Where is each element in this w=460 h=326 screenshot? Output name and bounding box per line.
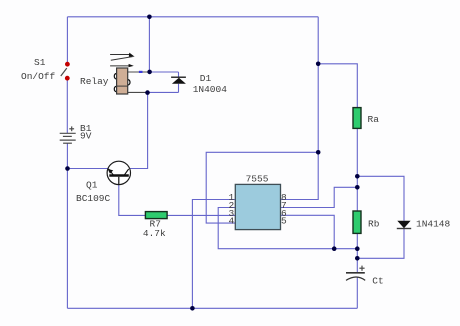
svg-text:4: 4: [229, 216, 235, 227]
node Rb Ct junction: [355, 246, 360, 251]
wire battery to bottom rail: [66, 143, 68, 308]
resistor Rb: [353, 211, 361, 233]
node Ra diode junction: [355, 174, 360, 179]
wire pin 2 trigger: [218, 208, 357, 249]
wire R7 to pin 3: [167, 214, 235, 216]
wire top rail: [67, 16, 318, 18]
svg-text:D1: D1: [200, 73, 212, 84]
node ground rail junction: [190, 306, 195, 311]
svg-text:1N4004: 1N4004: [193, 84, 228, 95]
svg-text:7555: 7555: [246, 173, 269, 184]
wire pin 6 threshold: [281, 215, 335, 248]
wire Rb to Ct: [356, 233, 358, 272]
svg-text:Ct: Ct: [372, 275, 383, 286]
wire reset pin 4: [206, 152, 318, 223]
node coil top junction: [147, 70, 152, 75]
resistor R7: [145, 212, 167, 219]
wire coil bottom to D1: [148, 91, 179, 93]
battery B1: [60, 126, 76, 143]
wire D1 riser top: [178, 72, 180, 77]
diode D2 1N4148: [397, 221, 411, 229]
wire coil top stub: [117, 71, 148, 73]
switch S1: [61, 62, 70, 81]
wire base to R7: [119, 185, 146, 216]
wire 1N4148 branch bottom: [357, 229, 404, 259]
diode D1: [171, 77, 186, 84]
wire coil top to D1: [150, 71, 179, 73]
op-amp U1 7555: [235, 184, 280, 229]
svg-text:1N4148: 1N4148: [416, 218, 451, 229]
wire emitter: [67, 168, 108, 170]
node pin6 trigger junction: [332, 246, 337, 251]
node top rail junction: [147, 14, 152, 19]
node coil bottom junction: [145, 90, 150, 95]
svg-text:On/Off: On/Off: [21, 71, 56, 82]
svg-text:Rb: Rb: [368, 218, 380, 229]
svg-text:5: 5: [281, 216, 287, 227]
svg-text:Relay: Relay: [80, 76, 109, 87]
svg-text:4.7k: 4.7k: [143, 228, 166, 239]
wire Vcc right rail: [281, 17, 319, 200]
resistor Ra: [353, 108, 361, 129]
svg-text:Ra: Ra: [368, 114, 380, 125]
relay K1: [110, 53, 135, 94]
wire Ra to Rb: [356, 128, 358, 211]
wire relay riser: [148, 17, 150, 72]
wire Ct to bottom rail: [356, 278, 358, 309]
svg-text:BC109C: BC109C: [76, 193, 111, 204]
node emitter junction: [65, 166, 70, 171]
wire pin 7 discharge: [281, 187, 358, 207]
wire switch to battery: [66, 78, 68, 133]
capacitor Ct: [346, 266, 365, 281]
wire net tick: [139, 71, 143, 73]
node Vcc reset junction: [316, 150, 321, 155]
wire Ra branch: [318, 64, 357, 108]
wire 1N4148 branch top: [357, 176, 404, 220]
transistor Q1: [107, 161, 130, 184]
node Ra pin7 junction: [355, 185, 360, 190]
wire collector: [129, 93, 147, 169]
svg-text:Q1: Q1: [86, 180, 98, 191]
node Vcc Ra junction: [316, 62, 321, 67]
wire left rail upper: [66, 17, 68, 64]
svg-text:9V: 9V: [80, 131, 92, 142]
node diode Ct junction: [355, 256, 360, 261]
wire bottom rail: [67, 307, 357, 309]
wire D1 riser bottom: [178, 84, 180, 93]
wire pin 1 to ground rail: [192, 200, 235, 309]
wire coil bottom stub: [128, 91, 146, 93]
svg-text:S1: S1: [34, 57, 46, 68]
